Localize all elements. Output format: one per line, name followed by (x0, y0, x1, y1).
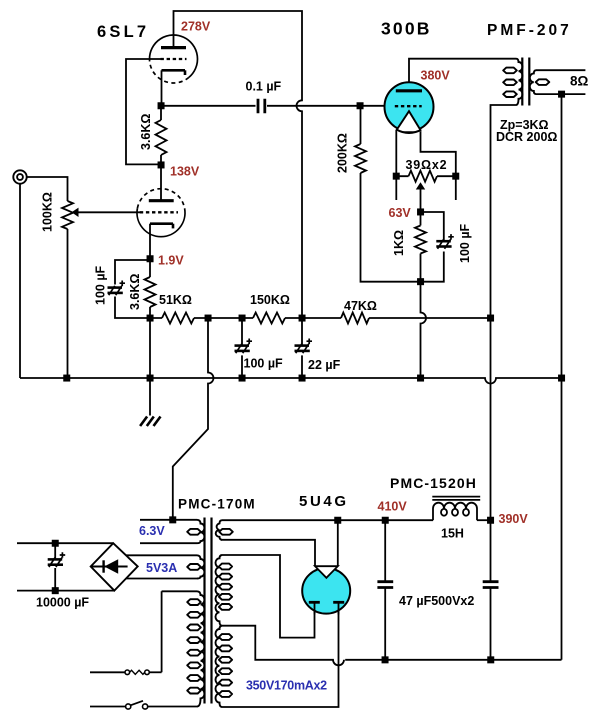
svg-text:350V170mAx2: 350V170mAx2 (246, 679, 327, 693)
svg-text:5V3A: 5V3A (146, 561, 177, 575)
svg-text:6.3V: 6.3V (139, 524, 165, 538)
svg-text:300B: 300B (381, 19, 432, 39)
svg-text:PMC-170M: PMC-170M (178, 497, 256, 512)
svg-text:100 µF: 100 µF (244, 357, 284, 371)
svg-text:1KΩ: 1KΩ (392, 230, 406, 256)
svg-text:DCR 200Ω: DCR 200Ω (496, 130, 557, 144)
svg-text:380V: 380V (421, 69, 451, 83)
svg-text:150KΩ: 150KΩ (250, 293, 290, 307)
svg-text:3.6KΩ: 3.6KΩ (139, 114, 153, 150)
svg-text:100 µF: 100 µF (458, 223, 472, 263)
svg-text:15H: 15H (441, 527, 464, 541)
svg-text:390V: 390V (499, 512, 529, 526)
svg-text:39Ωx2: 39Ωx2 (406, 158, 448, 172)
svg-text:10000 µF: 10000 µF (36, 596, 89, 610)
svg-text:410V: 410V (378, 500, 408, 514)
svg-text:100KΩ: 100KΩ (41, 192, 55, 232)
svg-text:PMF-207: PMF-207 (487, 22, 572, 39)
svg-text:PMC-1520H: PMC-1520H (390, 475, 477, 491)
svg-text:6SL7: 6SL7 (97, 23, 149, 41)
svg-text:22 µF: 22 µF (308, 358, 341, 372)
svg-text:1.9V: 1.9V (158, 254, 184, 268)
svg-text:8Ω: 8Ω (570, 74, 589, 89)
svg-text:100 µF: 100 µF (94, 265, 108, 305)
svg-text:138V: 138V (170, 165, 200, 179)
svg-text:278V: 278V (181, 20, 211, 34)
svg-text:51KΩ: 51KΩ (159, 293, 192, 307)
svg-text:47 µF500Vx2: 47 µF500Vx2 (399, 594, 474, 608)
svg-text:47KΩ: 47KΩ (344, 299, 377, 313)
svg-text:63V: 63V (389, 206, 412, 220)
svg-text:200KΩ: 200KΩ (336, 133, 350, 173)
svg-text:3.6KΩ: 3.6KΩ (128, 274, 142, 310)
svg-text:0.1 µF: 0.1 µF (246, 80, 282, 94)
svg-text:5U4G: 5U4G (299, 493, 349, 510)
